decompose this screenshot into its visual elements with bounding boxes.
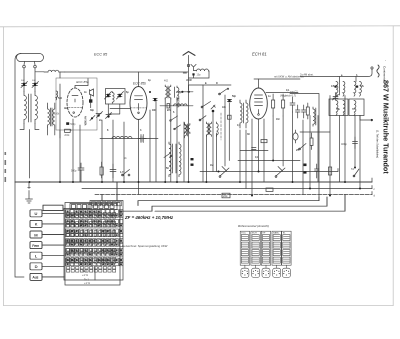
resistor R10 (306, 103, 309, 119)
UKW box (56, 78, 97, 130)
capacitor C12 400pF (341, 137, 358, 149)
svg-text:Gezeichnet: Spannungstellung U: Gezeichnet: Spannungstellung UKW (122, 244, 168, 248)
keyboard matrix cell marks (67, 211, 122, 266)
switch S3 TA (351, 167, 359, 177)
box cap C20 (167, 104, 170, 108)
resistor R4 (228, 115, 232, 119)
IF transformer T1 (336, 81, 345, 96)
switch S4 (299, 144, 306, 150)
capacitor C8 (290, 97, 295, 112)
vertical wire s (224, 95, 226, 166)
capacitor C17 (252, 148, 257, 150)
vertical wire j (164, 98, 166, 182)
capacitor C18 (138, 135, 146, 143)
resistor R13 (65, 129, 71, 132)
variable capacitor CV1 (105, 92, 112, 100)
coil L16 (217, 122, 219, 136)
tube V1 ECC85 (67, 79, 88, 118)
variable capacitor CV2 (117, 92, 124, 100)
svg-text:460: 460 (152, 109, 157, 112)
key button L (30, 252, 42, 259)
wire (189, 84, 231, 86)
bus wire 5 partial (238, 160, 300, 162)
transformer TR1 primary (48, 107, 55, 127)
terminal with squiggle (338, 65, 379, 77)
return wire 3 (155, 195, 345, 212)
vertical wire v (245, 130, 247, 189)
svg-text:Röhrensockel (Ansicht): Röhrensockel (Ansicht) (238, 224, 269, 228)
key button Aus (30, 273, 42, 280)
terminal square (192, 73, 194, 75)
switch S5 (164, 153, 172, 158)
antenna terminal 2 (34, 65, 37, 68)
wire stub T1 top (339, 77, 341, 82)
wire TR1 leads (48, 103, 55, 135)
blob component (89, 95, 92, 108)
socket column 4 (272, 231, 281, 265)
horizontal wire segment 2 (240, 150, 268, 152)
socket view 3 (262, 268, 270, 277)
wire (59, 72, 61, 138)
svg-text:U: U (35, 211, 38, 216)
vertical wire af (329, 96, 331, 195)
svg-text:400p: 400p (341, 142, 347, 146)
vertical wire ab (292, 112, 294, 182)
svg-text:K: K (35, 222, 38, 227)
vertical wire ai (354, 116, 356, 169)
junction dot (188, 91, 190, 93)
socket column 5 (282, 231, 291, 265)
bus wire 2 (82, 188, 372, 190)
vertical wire w (251, 119, 253, 195)
box edge coil (56, 91, 58, 100)
coil L8 (313, 107, 316, 126)
value labels (58, 74, 365, 174)
resistor R12 (261, 140, 267, 143)
vertical wire z (272, 116, 274, 161)
svg-text:M: M (34, 232, 37, 237)
svg-text:ECH: ECH (252, 233, 257, 235)
horizontal wire segment 3 (300, 131, 330, 133)
label under bus (222, 193, 230, 198)
horizontal wire segment 1 (100, 138, 158, 140)
junction dot (149, 91, 151, 93)
svg-text:EABC: EABC (273, 232, 279, 235)
svg-text:von C2: von C2 (290, 91, 298, 94)
key link wires (42, 213, 64, 277)
capacitor C6 (227, 99, 231, 102)
vertical wire i (155, 102, 157, 183)
svg-text:AM 460k: AM 460k (177, 98, 180, 108)
coil L12 (185, 123, 188, 138)
key button K (30, 220, 42, 227)
connector dot 1 (304, 164, 307, 167)
core dot T1 (335, 86, 337, 88)
vertical wire q (212, 112, 214, 172)
bus wire 3 (95, 194, 372, 196)
key button Fern (30, 242, 42, 249)
pot P2 (219, 167, 229, 178)
trimmer C2 (32, 80, 39, 92)
oscillator coil L11 (176, 142, 181, 177)
svg-text:ECH 81: ECH 81 (252, 52, 267, 57)
trimmer dot (211, 105, 215, 112)
trimmer C1 (21, 80, 28, 92)
wire stub T2 top (355, 77, 357, 82)
key button M (30, 231, 42, 238)
socket view 2 (252, 268, 260, 277)
keyboard matrix frame (65, 203, 120, 286)
vertical wire ae (317, 116, 319, 183)
svg-text:ECC 85b: ECC 85b (133, 82, 146, 86)
key button U (30, 210, 42, 217)
switch S1c (199, 116, 206, 121)
coupling coil L3 (44, 70, 65, 72)
svg-text:AM 560k: AM 560k (84, 116, 87, 126)
keyboard matrix header (92, 202, 122, 206)
wire gang leads (108, 104, 130, 114)
socket column 1 (240, 231, 249, 265)
switch S1a (219, 88, 229, 95)
svg-text:1M: 1M (210, 164, 213, 167)
ground (26, 182, 33, 203)
core dot T2 (356, 86, 358, 88)
dashed vertical (220, 113, 222, 140)
vertical wire g (138, 120, 140, 195)
keyboard matrix cells (66, 210, 123, 266)
gang coil (112, 92, 114, 104)
coil L13 horizontal (174, 104, 188, 106)
junction dot (181, 91, 183, 93)
svg-text:10p: 10p (197, 74, 202, 77)
svg-text:462: 462 (164, 80, 169, 83)
svg-text:(Abgleich 6,7): (Abgleich 6,7) (280, 94, 296, 98)
left margin wire (15, 54, 24, 278)
tube V3 ECH81 (250, 79, 268, 119)
resistor R7 (100, 162, 103, 178)
junction dots (29, 160, 362, 197)
vertical wire ag (339, 116, 341, 183)
trimmer P1b (106, 113, 112, 119)
vertical wire r (216, 133, 218, 172)
svg-text:ZF = 460kHz + 10,7MHz: ZF = 460kHz + 10,7MHz (124, 215, 174, 220)
return wire loop 2 (120, 197, 327, 211)
svg-text:867 W Musiktruhe Turandot: 867 W Musiktruhe Turandot (382, 80, 391, 174)
vertical wire m (183, 122, 185, 182)
svg-text:Ta 1: Ta 1 (84, 278, 89, 282)
svg-text:D: D (35, 264, 38, 269)
svg-text:Fern: Fern (32, 244, 39, 248)
IF transformer T2 (354, 82, 361, 97)
socket column 2 (251, 231, 260, 265)
connector block above keys (43, 205, 63, 210)
antenna stem (188, 55, 190, 90)
resistor R9 (329, 167, 332, 175)
capacitor C16 (315, 164, 320, 178)
right title text (376, 60, 391, 174)
keyboard matrix frame (64, 201, 123, 281)
coil L1 (24, 92, 29, 124)
coil L7 (240, 100, 248, 128)
key button D (30, 263, 42, 270)
wire (20, 124, 39, 130)
svg-text:ECC: ECC (241, 233, 246, 235)
matrix feed wires (102, 182, 117, 201)
value labels (58, 74, 365, 174)
socket view 1 (241, 268, 249, 277)
antenna circle (187, 64, 189, 66)
vertical wire n (188, 85, 190, 182)
wire T2 to output dot (360, 116, 372, 121)
socket tables (240, 231, 291, 277)
pot P1 (96, 112, 103, 118)
svg-text:Aus: Aus (33, 276, 39, 280)
wire AM line (254, 77, 338, 80)
loop antenna (17, 54, 44, 66)
wire y92 (179, 91, 193, 93)
vertical wire x (258, 119, 260, 172)
wire to ground bus (29, 130, 31, 179)
svg-text:D: D (216, 82, 218, 85)
vertical wire a (59, 84, 61, 182)
capacitor C11 (110, 164, 116, 178)
trimmer arrow (90, 116, 95, 121)
key button Fern (30, 242, 42, 249)
coupling cap block (66, 122, 69, 125)
svg-text:ECC 85a: ECC 85a (76, 80, 89, 84)
vertical wire k (170, 98, 172, 182)
key button D (30, 263, 42, 270)
vertical wire h (149, 110, 151, 182)
vertical wire y (263, 119, 265, 182)
wire vormal (290, 94, 319, 198)
resistor R5 (272, 94, 275, 116)
coil L2 (31, 92, 37, 124)
key button Aus (30, 273, 42, 280)
switch S2 (122, 170, 130, 176)
key button K (30, 220, 42, 227)
svg-text:TA: TA (351, 167, 354, 171)
IF coil B (175, 86, 179, 100)
tube V2 ECC85b (130, 72, 147, 120)
IF transformer T2 secondary box (349, 99, 364, 116)
connector dot 2 (304, 171, 307, 174)
vertical wire aj (359, 116, 361, 189)
vertical wire ad (309, 116, 311, 189)
return wire loop 2 (120, 197, 327, 211)
return wire loop 1 (138, 197, 319, 206)
svg-text:AM: AM (64, 107, 68, 110)
vertical wire t (228, 103, 230, 161)
vertical wire ac (302, 120, 304, 195)
IF transformer T1 secondary box (329, 99, 348, 116)
connector marks (191, 158, 194, 166)
vertical wire f (123, 122, 125, 182)
socket view 5 (282, 268, 290, 277)
tuning gang box (106, 89, 126, 105)
wire top feed line (65, 71, 188, 73)
resistor R8 (266, 188, 273, 191)
antenna terminal 1 (23, 65, 26, 68)
capacitor C10 500p (71, 163, 84, 182)
wire output down (371, 120, 373, 121)
svg-text:22k: 22k (223, 194, 228, 198)
svg-text:100k: 100k (54, 114, 60, 116)
electrolytic cap C15 (293, 130, 298, 143)
vertical wire u (239, 130, 241, 182)
vertical wire e (112, 120, 114, 182)
horn (90, 89, 94, 96)
svg-text:1M: 1M (276, 118, 279, 121)
antenna coil (194, 69, 210, 71)
IF coil A (165, 85, 171, 99)
svg-text:220p: 220p (176, 91, 182, 94)
capacitor C14 (302, 105, 307, 118)
wire osc line (266, 92, 298, 94)
key link wires (42, 213, 64, 277)
switch S7 (174, 125, 181, 130)
coil L14 (185, 124, 190, 134)
key button L (30, 252, 42, 259)
svg-text:200k: 200k (64, 135, 70, 137)
capacitor C13 (296, 105, 301, 118)
svg-text:560: 560 (58, 97, 63, 100)
vertical wire d (101, 120, 103, 182)
junction dot output (371, 119, 373, 121)
svg-text:500p: 500p (71, 170, 77, 173)
switch S6 (170, 116, 178, 121)
vertical wire aa (282, 116, 284, 166)
wire antenna loop (183, 71, 209, 78)
return wire loop 1 (138, 197, 319, 206)
bus wire 1 (15, 181, 372, 183)
trimmer between T1 T2 (333, 93, 339, 100)
svg-text:UKW: UKW (186, 79, 192, 82)
key button M (30, 231, 42, 238)
left margin marks (5, 152, 7, 182)
socket column 3 (261, 231, 270, 265)
svg-text:50p: 50p (232, 95, 237, 98)
svg-text:ECC 85: ECC 85 (94, 53, 108, 57)
resistor R11 (310, 133, 313, 150)
svg-text:(1. Teil des Schaltbildes): (1. Teil des Schaltbildes) (376, 130, 380, 158)
svg-text:30p: 30p (90, 109, 95, 112)
bus wire 4 partial (200, 171, 338, 173)
oscillator coil L10 (169, 142, 173, 177)
keyboard matrix cells (67, 213, 116, 273)
svg-text:2x AM abst.: 2x AM abst. (300, 73, 314, 77)
svg-text:+1 %: +1 % (84, 281, 91, 285)
coil L9 horizontal (112, 137, 132, 139)
whip antenna chevron (183, 52, 195, 56)
vertical wire c (79, 125, 81, 182)
vertical wire p (205, 135, 207, 182)
svg-text:4,7k: 4,7k (120, 171, 125, 174)
wire y106 (160, 105, 193, 107)
bus right hooks (338, 169, 372, 195)
capacitor C19 (153, 98, 157, 101)
coil L15 (206, 122, 211, 136)
matrix feed wires (102, 182, 117, 201)
resistor R6 (282, 94, 285, 116)
vertical wire l (176, 97, 178, 182)
connector block above keys (43, 205, 63, 210)
dipole fork (191, 64, 196, 70)
keyboard matrix header (70, 204, 117, 210)
wire (24, 68, 44, 80)
vertical wire o (202, 85, 204, 182)
pot P3 (275, 167, 285, 178)
svg-text:+1 %: +1 % (82, 273, 89, 277)
capacitor C9 (141, 137, 143, 142)
socket view 4 (273, 268, 281, 277)
vertical wire ah (344, 96, 346, 183)
switch S1b (201, 102, 210, 108)
return wire 3 (155, 195, 345, 212)
key button U (30, 210, 42, 217)
vertical wire b (72, 119, 74, 182)
